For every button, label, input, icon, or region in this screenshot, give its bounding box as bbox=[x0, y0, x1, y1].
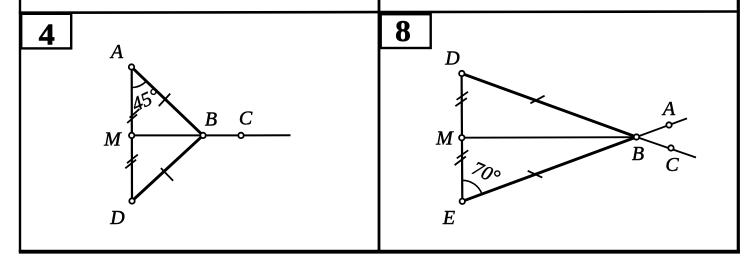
single tick on DB bbox=[530, 96, 544, 104]
double tick on DM bbox=[455, 92, 468, 106]
segment AD (vertical through M) bbox=[131, 67, 134, 201]
svg-text:E: E bbox=[442, 207, 455, 229]
point M right bbox=[459, 135, 464, 140]
svg-text:C: C bbox=[239, 108, 253, 130]
table center divider bbox=[378, 0, 381, 252]
point C right bbox=[668, 145, 673, 150]
point D right bbox=[459, 71, 464, 76]
segment DE (vertical through M) bbox=[461, 74, 464, 202]
angle arc 45 at A bbox=[132, 81, 147, 87]
svg-text:8: 8 bbox=[395, 13, 411, 48]
point C bbox=[238, 133, 243, 138]
ray B through C bbox=[637, 137, 697, 158]
angle arc 70 at E bbox=[462, 180, 482, 194]
single tick on DB bbox=[161, 168, 173, 181]
ray B through A bbox=[637, 118, 688, 137]
problem number box 4 bbox=[21, 14, 71, 52]
svg-text:D: D bbox=[109, 207, 125, 229]
segment AB bbox=[132, 67, 204, 135]
svg-text:A: A bbox=[109, 41, 124, 63]
single tick on AB bbox=[159, 94, 170, 107]
double tick on MD bbox=[125, 155, 138, 169]
svg-text:M: M bbox=[435, 128, 454, 150]
segment MB bbox=[462, 136, 637, 139]
point D bbox=[129, 198, 134, 203]
double tick on AM bbox=[127, 109, 139, 123]
line MB extended through C bbox=[132, 134, 291, 136]
svg-text:M: M bbox=[103, 128, 122, 150]
svg-text:D: D bbox=[444, 47, 460, 69]
angle label 70deg bbox=[469, 157, 504, 188]
table bottom rule bbox=[19, 250, 740, 254]
problem number box 8 bbox=[381, 13, 431, 48]
table left border bbox=[19, 0, 21, 252]
segment EB bbox=[462, 137, 636, 201]
point E right bbox=[460, 199, 465, 204]
single tick on EB bbox=[528, 171, 543, 178]
point B right bbox=[634, 134, 639, 139]
svg-text:4: 4 bbox=[39, 16, 55, 51]
svg-text:C: C bbox=[665, 154, 679, 176]
segment DB bbox=[132, 135, 203, 201]
double tick on ME bbox=[455, 150, 469, 165]
point A bbox=[129, 64, 134, 69]
svg-text:B: B bbox=[632, 143, 644, 165]
svg-text:B: B bbox=[205, 108, 217, 130]
segment DB bbox=[462, 74, 637, 138]
angle label 45deg bbox=[128, 84, 163, 116]
svg-text:A: A bbox=[661, 98, 676, 120]
table right border bbox=[737, 0, 740, 253]
point A right bbox=[666, 122, 671, 127]
table top rule bbox=[19, 12, 740, 13]
point M bbox=[129, 133, 134, 138]
point B bbox=[200, 133, 205, 138]
